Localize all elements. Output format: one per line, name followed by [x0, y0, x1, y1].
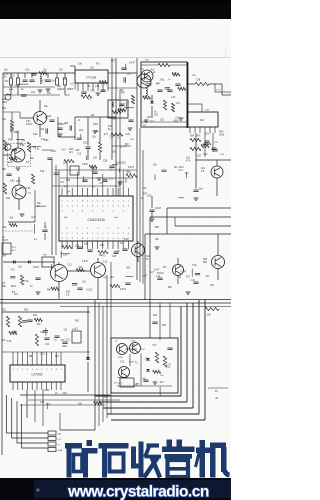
wire connector [7, 395, 49, 433]
wire nest h3 [103, 407, 193, 409]
connector pin P1 [48, 431, 56, 435]
op-amp U901 LA7092 [10, 365, 65, 382]
wire [2, 351, 90, 353]
resistor R206 [64, 159, 74, 162]
resistor R407 [31, 174, 34, 184]
wire [55, 169, 137, 171]
resistor R304 [190, 138, 201, 141]
wire [17, 132, 19, 148]
wire [3, 86, 55, 88]
wire nest v5 [180, 307, 182, 397]
wire [129, 354, 131, 366]
ground [38, 90, 43, 92]
wire [108, 72, 116, 74]
resistor R801 [110, 284, 120, 287]
wire [137, 241, 139, 244]
wire [99, 117, 101, 142]
wire bus [60, 306, 231, 308]
wire [151, 95, 153, 101]
small box T402 [70, 166, 79, 175]
wire [196, 159, 231, 161]
capacitor C301 [157, 90, 162, 91]
ground [186, 292, 191, 294]
coil T401 winding [112, 102, 113, 107]
dashed shield box [8, 144, 31, 167]
ground [58, 134, 63, 136]
wire [166, 208, 168, 234]
capacitor C405 [6, 174, 11, 175]
ground [194, 198, 199, 200]
capacitor C104 [81, 92, 86, 93]
wire nest v4 [186, 303, 188, 402]
capacitor C110 [5, 94, 11, 100]
resistor R902 [18, 316, 21, 327]
wire thick box edge [187, 62, 189, 128]
diode D902 [146, 358, 150, 360]
ground [128, 128, 133, 130]
transistor Q302 [211, 166, 223, 178]
wire [11, 112, 13, 120]
capacitor C803 [125, 283, 130, 284]
wire [10, 73, 12, 78]
wire [52, 185, 120, 187]
ground [96, 93, 101, 95]
svg-text:»: » [36, 487, 40, 494]
resistor R205 [98, 142, 101, 152]
diode D802 [28, 260, 30, 264]
small box relay [120, 378, 134, 387]
wire nest h2 [107, 413, 199, 415]
switch box S801 [42, 257, 54, 267]
wire [117, 385, 172, 387]
wire U101 pins [77, 83, 79, 91]
diode D903 [146, 369, 150, 371]
capacitor C906 [62, 342, 67, 343]
wire bus [145, 233, 231, 235]
ground [144, 120, 149, 122]
wire [142, 150, 144, 284]
connector pin P4 [48, 448, 56, 452]
capacitor C402 [124, 77, 125, 82]
wire [141, 121, 187, 123]
wire [188, 83, 195, 85]
capacitor C407 [77, 247, 82, 248]
transistor Q903 [119, 367, 130, 378]
diode D801 [13, 260, 15, 264]
wire [20, 404, 105, 406]
wire [75, 116, 116, 118]
op-amp U301 [187, 112, 218, 127]
wire [97, 258, 99, 263]
wire [3, 94, 60, 96]
wire [20, 117, 34, 119]
transistor Q201 [34, 112, 47, 125]
wire bus [150, 216, 231, 218]
wire [214, 84, 216, 92]
watermark glyph SHOU [131, 447, 136, 469]
wire nest v1 [204, 300, 206, 420]
transistor Q402 [12, 185, 26, 199]
resistor R406 [98, 250, 108, 253]
capacitor C404 [92, 172, 97, 173]
capacitor C102 [29, 80, 34, 81]
wire [70, 65, 75, 67]
capacitor C106 [100, 90, 105, 91]
transistor Q801 [51, 265, 68, 282]
resistor R306 [171, 103, 174, 112]
coil L301 [203, 144, 211, 145]
ground [150, 219, 155, 221]
capacitor C101 [22, 80, 27, 81]
resistor R118 [131, 95, 134, 104]
capacitor C413 [42, 230, 47, 231]
capacitor C203 [46, 128, 47, 133]
resistor R202 [27, 142, 30, 152]
watermark glyph YIN [167, 440, 173, 447]
capacitor C111 [5, 144, 11, 150]
wire [60, 177, 133, 179]
wire bus [0, 302, 231, 304]
ground [46, 89, 51, 91]
wire [139, 128, 141, 282]
capacitor C802 [35, 278, 40, 279]
resistor R802 [205, 307, 219, 310]
wire [58, 262, 60, 265]
ground [16, 168, 21, 170]
wire bus [167, 207, 231, 209]
ground [93, 131, 98, 133]
watermark glyph KUANG [65, 443, 82, 449]
wire [216, 160, 218, 166]
wire [3, 72, 75, 74]
diode D901 [86, 357, 90, 360]
wire [20, 394, 110, 396]
resistor R305 [190, 147, 201, 150]
capacitor C304 [204, 141, 209, 142]
op-amp U401 CXA1191 [59, 196, 133, 241]
wire [151, 196, 153, 208]
wire dashed AM-FM [2, 230, 34, 232]
wire U301 pins [189, 127, 191, 133]
capacitor C202 [57, 128, 62, 129]
capacitor C410 [193, 282, 198, 283]
wire [108, 87, 137, 89]
wire [115, 58, 117, 196]
capacitor C411 [82, 180, 87, 181]
wire [149, 300, 151, 338]
resistor R203 [10, 120, 13, 129]
capacitor C302 [167, 90, 172, 91]
connector pin P2 [48, 437, 56, 441]
IF transformer T401 [108, 100, 128, 118]
shield box motor drive [111, 338, 178, 393]
capacitor C415 [122, 249, 127, 250]
wire [51, 160, 53, 255]
capacitor C804 [152, 322, 157, 323]
wire [3, 261, 55, 263]
wire [44, 222, 46, 228]
wire [87, 117, 89, 146]
op-amp U101 [75, 70, 108, 83]
wire bundle [94, 300, 96, 430]
ground [153, 382, 158, 384]
capacitor C902 [44, 338, 49, 339]
capacitor C305 [211, 148, 216, 149]
watermark glyph SHI [99, 443, 129, 449]
wire [217, 234, 219, 255]
wire connector [17, 401, 48, 443]
resistor R101 [10, 78, 13, 85]
wire [8, 221, 35, 223]
wire nest h1 [111, 419, 205, 421]
wire [58, 170, 60, 196]
capacitor C103 [45, 80, 50, 81]
wire [39, 100, 41, 112]
resistor R901 [6, 316, 9, 327]
resistor R402 [111, 133, 123, 136]
coil T301 [146, 88, 147, 96]
wire [195, 133, 197, 160]
resistor R302 [163, 100, 166, 110]
resistor R105 [64, 78, 67, 85]
transistor Q401 [137, 74, 151, 88]
wire U901 top pins [12, 352, 14, 365]
capacitor C403 [109, 166, 114, 167]
wire [2, 73, 4, 166]
electrolytic C903 [72, 331, 81, 343]
capacitor C117 [121, 68, 126, 69]
transistor Q902 [130, 343, 141, 354]
capacitor C118 [128, 120, 133, 121]
wire [188, 103, 202, 105]
resistor R303 [195, 82, 209, 85]
wire [149, 217, 151, 300]
capacitor C401 [119, 104, 124, 105]
capacitor C412 [102, 180, 107, 181]
capacitor C204 [85, 147, 90, 148]
transistor Q802 [91, 263, 106, 278]
wire [141, 64, 158, 66]
watermark strip [0, 478, 231, 500]
wire U401 bottom pins [61, 241, 63, 249]
page border line [0, 57, 231, 59]
ground [179, 118, 184, 120]
resistor R102 [17, 78, 20, 85]
wire bus [0, 299, 231, 301]
capacitor C905 [54, 336, 59, 337]
wire [87, 306, 89, 357]
wire [112, 145, 131, 147]
wire [18, 177, 20, 185]
tuning gang CT1 [2, 243, 11, 254]
resistor R903 [35, 334, 38, 346]
capacitor C904 [167, 348, 172, 349]
wire [111, 58, 113, 160]
resistor R404 [3, 183, 6, 194]
wire connector [12, 398, 48, 438]
transistor Q403 [132, 244, 145, 257]
wire [2, 311, 90, 313]
ground [155, 247, 160, 249]
ground [20, 214, 25, 216]
resistor R201 [3, 140, 6, 151]
capacitor C303 [175, 84, 180, 85]
capacitor C306 [193, 190, 198, 191]
watermark glyph JI [196, 448, 211, 454]
wire nest v3 [192, 303, 194, 408]
wire [209, 83, 222, 85]
capacitor C414 [113, 252, 118, 253]
capacitor C409 [157, 278, 162, 279]
wire nest bottom [60, 429, 95, 431]
scan noise texture [0, 45, 231, 460]
wire U401 top pins [61, 188, 63, 196]
wire [26, 390, 28, 418]
wire [208, 387, 228, 389]
wire nest h5 [95, 395, 181, 397]
wire [55, 165, 57, 255]
capacitor C206 [70, 125, 71, 130]
wire [2, 166, 4, 255]
capacitor C801 [77, 288, 82, 289]
wire [24, 73, 26, 78]
wire [28, 399, 120, 401]
page border right edge [225, 49, 227, 58]
wire connector [22, 404, 48, 448]
wire [58, 136, 75, 138]
resistor R904 [155, 352, 158, 363]
wire nest v2 [198, 300, 200, 414]
shield box converter [141, 62, 187, 127]
ground [36, 292, 41, 294]
transistor Q202 [11, 148, 25, 162]
wire [1, 255, 3, 455]
resistor R103 [56, 78, 59, 85]
wire [195, 160, 197, 189]
transistor Q301 [141, 70, 153, 82]
diode D301 [150, 101, 154, 103]
resistor R401 [112, 110, 121, 113]
top black banner [0, 0, 231, 19]
transistor Q404 [212, 256, 225, 269]
wire [116, 72, 137, 74]
capacitor C408 [87, 250, 92, 251]
resistor R803 [20, 275, 23, 285]
connector pin P3 [48, 442, 56, 446]
ground [118, 182, 123, 184]
wire nest h4 [99, 401, 187, 403]
transistor Q405 [173, 265, 184, 276]
wire [68, 270, 91, 272]
transistor Q901 [117, 344, 128, 355]
svg-text:www.crystalradio.cn: www.crystalradio.cn [67, 484, 209, 500]
wire [136, 58, 138, 280]
resistor R301 [158, 63, 170, 66]
capacitor C901 [27, 320, 32, 321]
capacitor C406 [149, 210, 154, 211]
ground [97, 178, 102, 180]
resistor R403 [126, 174, 137, 177]
resistor R405 [62, 245, 72, 248]
capacitor C205 [47, 158, 52, 159]
wire [3, 111, 20, 113]
resistor R104 [81, 95, 92, 98]
wire U401 pin risers [66, 163, 68, 188]
capacitor C201 [49, 120, 54, 121]
coil L101 [40, 76, 41, 84]
resistor R905 [163, 356, 166, 367]
wire [119, 90, 121, 196]
wire U901 bottom pins [12, 382, 14, 390]
capacitor C907 [143, 380, 148, 381]
wire [177, 258, 179, 264]
wire bus [175, 225, 231, 227]
